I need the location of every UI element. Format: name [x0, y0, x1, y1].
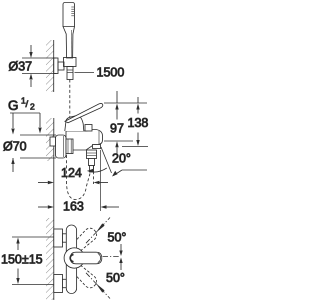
union nut (side view): [66, 139, 73, 154]
svg-text:138: 138: [128, 116, 149, 130]
centerline rotated down with arrow: [86, 273, 110, 299]
svg-text:Ø70: Ø70: [3, 140, 27, 154]
diverter knob on body: [85, 125, 92, 132]
dim 97+138 shared top extension line from lever tip: [104, 102, 147, 104]
dim 163: [38, 200, 119, 214]
spout aerator under tip: [93, 145, 101, 149]
lever handle (side view): [65, 103, 103, 122]
dim O70: [3, 135, 56, 172]
wall top (hand shower holder wall): [46, 40, 54, 92]
lever rotated up 50 deg (dashed): [72, 228, 97, 251]
shower holder arm and cup: [58, 58, 76, 71]
dim 138: [122, 97, 148, 147]
S-union pipe stub at wall: [50, 137, 56, 146]
dim 1500 leader: [75, 66, 125, 80]
wall middle+bottom (continuous): [46, 118, 54, 300]
dashed hose from hand shower down: [69, 80, 71, 122]
svg-text:124: 124: [61, 166, 82, 180]
hose connector below handle: [67, 67, 73, 80]
centerline rotated up with arrow: [86, 218, 110, 244]
svg-text:20°: 20°: [112, 152, 131, 166]
hand shower head: [63, 3, 75, 27]
dim 150±15: [1, 237, 56, 285]
dim G 1/2: [8, 96, 42, 135]
union escutcheon front bottom: [54, 275, 67, 293]
dim 124: [38, 166, 108, 184]
svg-text:Ø37: Ø37: [9, 60, 33, 74]
outlet centerline ext (124 right): [93, 166, 95, 184]
svg-text:50°: 50°: [106, 271, 125, 285]
50 deg labels with leaders: [108, 231, 127, 257]
lever rotated down 50 deg (dashed): [72, 265, 97, 288]
svg-text:2: 2: [30, 102, 35, 112]
cartridge dome (side view): [65, 115, 84, 131]
dashed hose loop below mixer: [67, 155, 91, 200]
dim 20 degrees: [88, 147, 148, 177]
svg-text:163: 163: [63, 200, 84, 214]
svg-text:50°: 50°: [108, 231, 127, 245]
dim 97: [104, 91, 133, 154]
svg-text:/: /: [26, 99, 29, 110]
svg-text:97: 97: [110, 122, 124, 136]
svg-text:G: G: [8, 98, 19, 113]
cartridge dome front (circle): [64, 248, 84, 268]
centerline horizontal (lever axis): [103, 256, 121, 258]
hand shower handle: [63, 27, 75, 59]
S-union escutcheon (side view): [56, 135, 67, 158]
shower holder rosette on wall: [54, 58, 58, 74]
svg-text:1500: 1500: [97, 66, 125, 80]
svg-text:150±15: 150±15: [1, 253, 43, 267]
shower outlet fitting below body: [87, 150, 97, 172]
dim O37: [9, 45, 57, 87]
mixer body front view (vertical stadium): [66, 225, 76, 294]
spout tip ext line (163 right): [100, 150, 102, 211]
lever front view (horizontal capsule): [70, 252, 102, 264]
union escutcheon front top: [54, 229, 67, 247]
mixer body (side view): [66, 130, 103, 151]
